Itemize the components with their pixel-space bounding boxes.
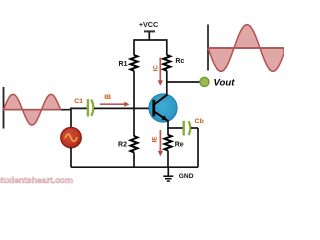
wire collector vertical <box>166 71 168 95</box>
resistor Re <box>165 135 172 151</box>
current arrow IC <box>159 58 161 82</box>
wire Re to bottom rail <box>167 151 169 168</box>
resistor R2 <box>131 136 138 152</box>
wire Cb to right drop <box>191 127 198 129</box>
resistor Rc <box>163 55 170 71</box>
svg-text:R1: R1 <box>119 61 128 68</box>
transistor Q1 base bar <box>152 100 155 117</box>
wire R2 to bottom rail <box>133 152 135 167</box>
wire source corner to C1 <box>70 107 87 109</box>
svg-text:C1: C1 <box>74 98 83 105</box>
wire R1 to R2 <box>133 71 135 137</box>
capacitor Cb right plate <box>189 121 191 135</box>
svg-text:Re: Re <box>175 142 184 149</box>
output sine wave <box>208 25 284 72</box>
output sine axis <box>207 25 209 71</box>
input sine axis <box>3 87 5 129</box>
svg-text:R2: R2 <box>118 141 127 148</box>
transistor Q1 emitter lead <box>155 112 168 121</box>
svg-text:+VCC: +VCC <box>139 20 158 29</box>
wire VCC stem <box>148 31 150 40</box>
wire emitter vertical <box>167 120 169 135</box>
AC source sine symbol <box>65 134 77 141</box>
node Vout terminal <box>200 77 209 86</box>
wire source vertical up <box>70 108 72 128</box>
capacitor C1 left plate <box>87 99 89 117</box>
capacitor C1 right plate <box>91 100 93 117</box>
svg-text:studentsheart.com: studentsheart.com <box>0 175 73 185</box>
ground <box>167 167 169 176</box>
wire right drop to bottom rail <box>197 128 199 167</box>
transistor Q1 body <box>149 94 177 122</box>
transistor Q1 collector lead <box>155 95 168 104</box>
wire collector to Vout <box>166 81 200 83</box>
current arrow IE <box>159 130 161 152</box>
transistor Q1 emitter arrow <box>161 115 167 120</box>
svg-text:IE: IE <box>152 136 159 143</box>
input sine wave <box>4 94 61 125</box>
input sine midline <box>4 109 71 111</box>
VCC terminal bar <box>144 30 155 32</box>
wire bottom rail <box>71 166 198 168</box>
AC source V1 <box>61 127 81 147</box>
wire emitter junction to Cb <box>167 127 183 129</box>
svg-text:Vout: Vout <box>214 77 236 88</box>
current arrow IB <box>100 103 125 105</box>
svg-text:Rc: Rc <box>175 58 184 65</box>
wire top rail <box>134 39 167 41</box>
wire top rail to Rc <box>166 39 168 55</box>
resistor R1 <box>131 55 138 71</box>
svg-text:GND: GND <box>179 173 194 180</box>
wire C1 to base <box>94 107 153 109</box>
capacitor Cb left plate <box>182 121 184 136</box>
wire source to bottom rail <box>70 148 72 168</box>
svg-text:IC: IC <box>152 65 159 72</box>
svg-text:IB: IB <box>104 94 111 101</box>
wire left drop to R1 <box>133 39 135 55</box>
svg-text:Cb: Cb <box>195 118 204 125</box>
output sine midline <box>208 47 284 49</box>
